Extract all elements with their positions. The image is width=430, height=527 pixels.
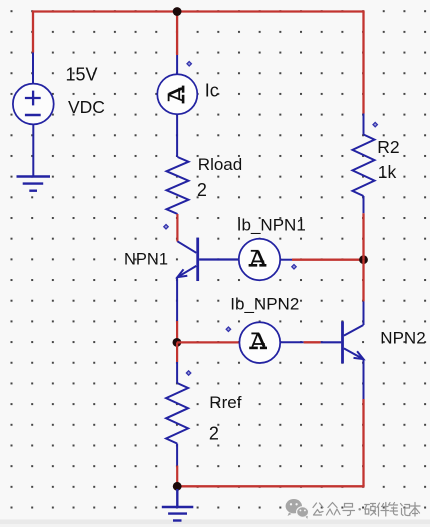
probe dot near Ic (187, 62, 191, 66)
ammeter Ib_NPN2 letter A (249, 333, 267, 348)
wire: red segment to NPN2 base (304, 341, 321, 343)
wire: mid vertical red (top to Ic ammeter) (176, 12, 178, 56)
wire: top horizontal net V+ (32, 10, 365, 12)
probe dot near R2 top (373, 122, 377, 126)
svg-text:Ib_NPN1: Ib_NPN1 (237, 215, 306, 234)
svg-text:Ib_NPN2: Ib_NPN2 (230, 295, 299, 314)
probe dot near Rref top (186, 371, 190, 375)
svg-text:NPN1: NPN1 (124, 251, 168, 269)
svg-text:15V: 15V (66, 65, 98, 85)
voltage source V1 (15V VDC) (13, 53, 54, 177)
svg-text:1k: 1k (378, 162, 397, 182)
ground (left, under V1) (17, 177, 51, 191)
svg-text:Ic: Ic (205, 81, 219, 101)
svg-text:Rref: Rref (209, 393, 241, 412)
wire: bottom horizontal net (177, 485, 364, 487)
svg-text:2: 2 (197, 180, 207, 200)
resistor Rload (167, 157, 189, 214)
dot separator (358, 508, 361, 511)
wire: red junction down to NPN2 collector (362, 260, 364, 302)
硬 (365, 504, 376, 516)
ammeter Ib_NPN2 (239, 322, 280, 363)
resistor R2 (353, 114, 375, 214)
node: right junction (359, 255, 368, 264)
公 (313, 503, 323, 515)
众 (327, 503, 341, 516)
wire: red Rref bottom to ground node (176, 466, 178, 487)
wire: red Rload bottom to NPN1 collector (176, 214, 178, 242)
wire: red R2 bottom to junction (362, 213, 364, 259)
svg-text:Rload: Rload (198, 155, 242, 174)
bottom fade band (0, 520, 430, 525)
probe dot near Ib_NPN2 (226, 327, 230, 331)
wire: right vertical red (top to R2) (362, 12, 364, 114)
lead: ammeter right stub blue (280, 341, 303, 343)
wire: red NPN1 emitter net down (176, 321, 178, 342)
wire: red junction to Ib_NPN2 ammeter (177, 341, 239, 343)
node: left junction (emitter/Rref/Ib_NPN2) (173, 338, 182, 347)
probe dot near Ib_NPN1 (292, 265, 296, 269)
ammeter Ib_NPN1 letter A (249, 251, 267, 265)
lead: ammeter right stub blue (280, 259, 292, 261)
件 (377, 503, 389, 517)
号 (343, 504, 355, 516)
记 (401, 504, 410, 516)
node: top junction (173, 7, 182, 16)
笔 (389, 503, 398, 515)
ammeter Ic letter A (rotated) (169, 86, 184, 104)
wire: red junction down to Rref (176, 342, 178, 362)
ammeter Ic (157, 55, 197, 157)
node: bottom junction (173, 482, 182, 491)
svg-text:R2: R2 (377, 137, 399, 157)
watermark text 公众号·硬件笔记本 (stroke approximation) (313, 503, 420, 517)
wire: right vertical red (NPN2 emitter to bottom) (362, 399, 364, 486)
transistor NPN2 (facing right) (321, 301, 364, 399)
svg-text:2: 2 (209, 423, 219, 443)
probe dot near Rload bottom (164, 225, 168, 229)
svg-text:VDC: VDC (68, 97, 105, 117)
wire: left vertical red (top to source) (32, 12, 34, 53)
ammeter Ib_NPN1 (239, 239, 280, 280)
wire: red base net to right junction (292, 259, 364, 261)
本 (411, 503, 421, 517)
watermark wechat logo (286, 499, 309, 519)
resistor Rref (166, 362, 188, 466)
transistor NPN1 (mirrored, facing left) (177, 238, 238, 321)
svg-text:NPN2: NPN2 (380, 329, 425, 348)
ground (bottom) (162, 489, 194, 521)
